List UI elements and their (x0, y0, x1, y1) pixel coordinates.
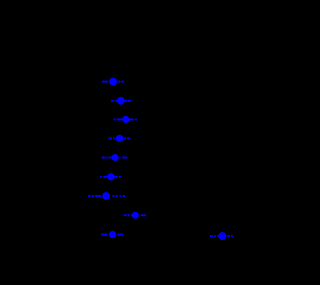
data point 7 error bar dash 7 (123, 195, 125, 197)
data point 2 error bar dash 3 (124, 100, 127, 102)
data point 7 error bar dash 3 (95, 195, 101, 197)
data point 10 marker dot (218, 232, 226, 240)
data point 5 error bar dash 5 (122, 157, 127, 159)
data point 6 error bar dash 3 (114, 176, 118, 178)
data point 2 error bar dash 4 (128, 100, 131, 102)
data point 6 marker dot (107, 173, 114, 180)
data point 3 error bar dash 1 (114, 118, 116, 120)
data point 3 error bar dash 4 (135, 118, 137, 120)
data point 4 error bar dash 3 (124, 137, 126, 139)
data point 5 marker dot (112, 154, 119, 161)
data point 2 marker dot (117, 97, 125, 105)
data point 4 marker dot (116, 135, 123, 142)
data point 1 error bar dash 3 (121, 81, 124, 83)
data point 6 error bar dash 1 (100, 176, 102, 178)
data point 2 error bar dash 2 (115, 100, 118, 102)
data point 8 error bar dash 2 (128, 214, 130, 216)
data point 4 error bar dash 2 (113, 137, 115, 139)
data point 10 error bar dash 2 (214, 235, 216, 237)
data point 6 error bar dash 4 (119, 176, 121, 178)
data point 8 marker dot (132, 212, 139, 219)
data point 5 error bar dash 2 (106, 157, 108, 159)
data point 1 marker dot (109, 78, 117, 86)
data point 10 error bar dash 3 (217, 235, 218, 237)
data point 4 error bar dash 1 (109, 137, 112, 139)
data point 10 error bar dash 4 (227, 235, 230, 237)
data point 3 marker dot (122, 116, 129, 123)
data point 8 error bar dash 4 (138, 214, 140, 216)
data point 7 error bar dash 2 (92, 195, 94, 197)
data point 7 error bar dash 4 (112, 195, 114, 197)
data point 10 error bar dash 5 (231, 235, 233, 237)
data point 7 error bar dash 6 (120, 195, 122, 197)
data point 3 error bar dash 3 (129, 118, 134, 120)
data point 1 error bar dash 2 (118, 81, 121, 83)
data point 2 error bar dash 1 (111, 100, 114, 102)
data point 10 error bar dash 1 (210, 235, 213, 237)
data point 8 error bar dash 5 (141, 214, 146, 216)
data point 4 error bar dash 4 (127, 137, 130, 139)
data point 6 error bar dash 2 (103, 176, 107, 178)
data point 9 error bar dash 1 (101, 234, 107, 236)
data point 8 error bar dash 3 (131, 214, 132, 216)
data point 7 error bar dash 5 (116, 195, 118, 197)
data point 5 error bar dash 1 (102, 157, 105, 159)
data point 1 error bar dash 1 (102, 81, 108, 83)
data point 7 error bar dash 1 (88, 195, 91, 197)
data point 8 error bar dash 1 (124, 214, 127, 216)
data point 7 marker dot (102, 192, 110, 200)
data point 5 error bar dash 4 (119, 157, 122, 159)
data point 5 error bar dash 3 (109, 157, 112, 159)
data point 9 error bar dash 2 (117, 234, 123, 236)
data point 9 marker dot (109, 231, 116, 238)
data point 3 error bar dash 2 (117, 118, 123, 120)
